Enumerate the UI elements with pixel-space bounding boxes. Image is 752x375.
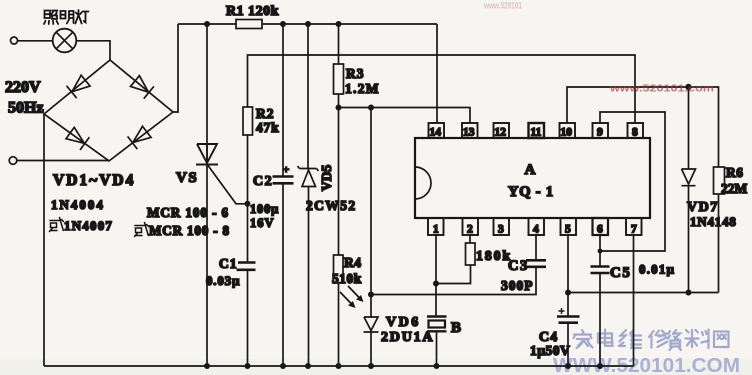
svg-text:16V: 16V — [250, 216, 275, 230]
wire (bridge - to ground rail) — [43, 114, 45, 366]
wire pin5 node to R6/VD7 bottom — [568, 292, 719, 294]
terminal (lower AC input) — [9, 157, 17, 165]
svg-text:50Hz: 50Hz — [8, 100, 44, 117]
IC pin 9 — [593, 123, 609, 139]
capacitor C5 — [591, 267, 610, 274]
wire R3 bottom — [338, 94, 340, 108]
svg-text:1.2M: 1.2M — [345, 81, 380, 96]
crystal B body — [429, 321, 446, 328]
thyristor VS — [196, 144, 218, 165]
IC notch — [415, 167, 431, 199]
watermark 家电维修资料网 (bottom, periwinkle) — [574, 330, 729, 351]
svg-text:0.01µ: 0.01µ — [639, 262, 675, 277]
svg-text:VD1~VD4: VD1~VD4 — [53, 172, 135, 189]
crystal B top plate — [427, 315, 447, 317]
wire VD5 bottom — [308, 187, 310, 367]
svg-text:14: 14 — [430, 127, 442, 139]
wire VD6 node to C3 bottom — [371, 267, 536, 295]
wire C1 bottom — [247, 270, 249, 366]
wire pin 7 to ground rail — [633, 235, 635, 366]
bridge rectifier VD1~VD4 diamond — [44, 60, 173, 161]
svg-text:2CW52: 2CW52 — [306, 198, 357, 213]
svg-text:MCR 100 - 6: MCR 100 - 6 — [147, 205, 229, 220]
wire R4 bottom to ground rail — [338, 283, 340, 366]
capacitor C4 (electrolytic) — [557, 317, 580, 323]
wire C5 bottom to ground rail — [599, 273, 601, 366]
ground rail (bottom) — [44, 365, 634, 367]
wire R2 top / pin 8 net — [248, 55, 636, 123]
IC pin 12 — [494, 123, 510, 139]
bridge diode VD3 (lower-left) — [65, 127, 89, 151]
IC pin 3 — [494, 218, 510, 236]
svg-text:VD5: VD5 — [319, 165, 334, 191]
label + (C4 polarity) — [559, 308, 565, 314]
terminal (upper AC input) — [11, 37, 18, 44]
diode VD7 — [682, 169, 696, 186]
bridge diode VD2 (upper-right) — [130, 75, 154, 99]
thyristor VS anode wire — [206, 24, 208, 145]
wire VD6 column — [370, 108, 372, 318]
wire (top rail down to IC pin 14) — [436, 24, 438, 123]
svg-text:www.520101.com: www.520101.com — [609, 83, 714, 95]
thyristor VS cathode wire to ground rail — [206, 164, 208, 367]
capacitor C2 top wire — [282, 24, 284, 176]
svg-text:1N4007: 1N4007 — [64, 218, 113, 233]
IC U1 body (A YQ-1) — [415, 138, 650, 218]
svg-text:12: 12 — [495, 127, 507, 139]
capacitor C3 — [526, 260, 546, 267]
wire top rail right of R1 — [262, 23, 437, 25]
light arrows into VD6 — [340, 286, 362, 307]
svg-text:R4: R4 — [344, 255, 362, 270]
resistor R2 — [243, 107, 253, 135]
svg-text:1N4148: 1N4148 — [690, 214, 737, 229]
wire — [17, 160, 109, 162]
IC pin 6 — [593, 218, 609, 236]
resistor R1 — [236, 20, 262, 29]
label 或MCR 100 - 8 — [135, 223, 149, 237]
svg-text:C5: C5 — [610, 265, 631, 281]
resistor R4 — [334, 255, 344, 283]
svg-text:5: 5 — [565, 224, 571, 236]
wire (bridge + up to top rail) — [173, 24, 178, 112]
wire C4 bottom — [567, 323, 569, 366]
svg-text:R1 120k: R1 120k — [226, 4, 279, 19]
svg-text:4: 4 — [533, 224, 539, 236]
resistor R3 top wire — [338, 24, 340, 64]
wire 180k bottom to pin1 node — [436, 265, 471, 284]
svg-text:1µ50V: 1µ50V — [530, 343, 570, 358]
wire — [76, 41, 110, 61]
svg-text:6: 6 — [597, 224, 603, 236]
zener VD5 top wire — [307, 24, 309, 168]
wire — [18, 40, 53, 42]
bridge diode VD1 (upper-left) — [67, 74, 91, 98]
svg-text:+: + — [283, 164, 289, 176]
svg-text:510k: 510k — [332, 271, 362, 286]
svg-text:R2: R2 — [256, 106, 275, 121]
svg-text:220V: 220V — [5, 79, 41, 96]
svg-text:YQ - 1: YQ - 1 — [508, 184, 554, 200]
wire R2 bottom — [247, 135, 249, 262]
IC pin 2 — [463, 218, 479, 236]
svg-text:9: 9 — [597, 127, 603, 139]
wire C3 top to pin 4 — [535, 235, 537, 260]
IC pin 13 — [462, 123, 478, 139]
svg-text:47k: 47k — [256, 120, 279, 135]
crystal B bottom plate — [427, 330, 447, 332]
svg-text:1N4004: 1N4004 — [51, 197, 105, 212]
svg-text:1: 1 — [433, 224, 439, 236]
wire node to IC pin 13 — [339, 108, 471, 124]
IC pin 5 — [561, 218, 577, 236]
wire B bottom to ground rail — [436, 332, 438, 367]
svg-text:7: 7 — [631, 224, 637, 236]
wire pin 10 net (to VD7/R6 top) — [567, 87, 719, 167]
photodiode VD6 — [364, 317, 379, 332]
svg-text:13: 13 — [463, 127, 475, 139]
svg-text:300P: 300P — [501, 278, 534, 293]
wire top rail left of R1 — [178, 23, 236, 25]
IC pin 8 — [628, 123, 644, 139]
capacitor C1 — [237, 263, 256, 270]
svg-text:180k: 180k — [476, 249, 512, 264]
label 或1N4007 — [50, 218, 64, 232]
wire VD7 bottom — [688, 186, 690, 293]
svg-text:A: A — [525, 162, 536, 178]
wire pin 1 down — [435, 235, 437, 316]
IC pin 7 — [626, 218, 642, 236]
svg-text:8: 8 — [632, 127, 638, 139]
svg-text:VD7: VD7 — [687, 200, 719, 215]
svg-text:10: 10 — [561, 127, 573, 139]
wire R4 top — [338, 108, 340, 256]
wire pin 5 / C4 column — [567, 235, 569, 316]
svg-text:100µ: 100µ — [250, 202, 279, 216]
svg-text:VS: VS — [176, 170, 198, 186]
svg-text:0.03µ: 0.03µ — [206, 273, 240, 288]
resistor 180k — [466, 243, 476, 265]
IC pin 11 — [529, 123, 545, 139]
wire C2 bottom — [282, 184, 284, 367]
IC pin 4 — [529, 218, 545, 236]
svg-text:www.520101: www.520101 — [483, 1, 522, 12]
svg-text:22M: 22M — [721, 181, 748, 196]
wire R6 bottom — [718, 194, 720, 293]
IC pin 10 — [560, 123, 576, 139]
svg-text:C2: C2 — [253, 174, 273, 189]
wire pin 2 to 180k — [469, 235, 471, 243]
wire pin 6 / C5 column — [599, 235, 601, 266]
scan tint band (bottom) — [0, 359, 752, 375]
resistor R3 — [334, 64, 344, 94]
svg-text:11: 11 — [531, 127, 542, 139]
svg-text:MCR 100 - 8: MCR 100 - 8 — [149, 223, 230, 238]
lamp (incandescent) — [53, 29, 77, 53]
svg-text:B: B — [451, 320, 461, 336]
svg-text:VD6: VD6 — [386, 315, 421, 330]
capacitor C2 — [273, 177, 294, 184]
svg-text:2DU1A: 2DU1A — [381, 330, 434, 345]
IC pin 14 — [429, 123, 445, 139]
svg-text:R6: R6 — [726, 165, 744, 180]
svg-text:WWW.520101.COM: WWW.520101.COM — [553, 355, 740, 375]
IC pin 1 — [428, 218, 444, 236]
thyristor VS gate wire — [208, 166, 247, 204]
wire VD7 top — [688, 87, 690, 169]
svg-text:3: 3 — [498, 224, 504, 236]
svg-text:C1: C1 — [219, 256, 238, 271]
svg-text:2: 2 — [467, 224, 473, 236]
wire VD6 bottom to ground rail — [370, 332, 372, 366]
wire pin 9 to pin 6 column — [600, 112, 665, 251]
zener diode VD5 — [298, 166, 319, 187]
svg-text:R3: R3 — [346, 66, 365, 81]
bridge diode VD4 (lower-right) — [128, 125, 152, 149]
label 照明灯 — [44, 10, 89, 24]
resistor R6 — [714, 167, 725, 194]
